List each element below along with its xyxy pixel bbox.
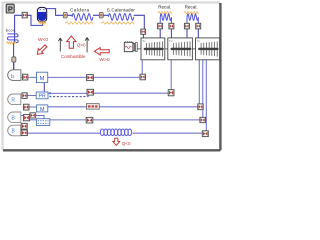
reheater1 heat marks (above) [158,12,172,14]
drum heat marks [38,21,46,23]
feedwater valve into drum [22,12,27,18]
svg-text:P: P [8,5,13,14]
hollow arrow down-left [37,45,46,54]
condenser coil [100,129,131,136]
heater1 valve to PR [22,93,27,99]
fitting before superheater coil [99,12,103,18]
hollow arrow left W>0 [94,48,109,55]
svg-text:Caldera: Caldera [70,8,90,13]
svg-text:M: M [40,107,45,113]
turbine T2 (MP) [168,38,193,60]
pressure reference P icon [6,4,14,13]
flow meter box M1 [37,72,48,82]
wire M to PR connector [43,83,45,92]
heater1 lower valve [23,104,29,110]
control valve row3 [86,117,93,123]
svg-text:W<0: W<0 [38,37,48,43]
svg-text:S.Calentador: S.Calentador [107,7,136,12]
reheater 1 coil [160,14,171,24]
turbine T3 (LP) [196,38,220,60]
wire drum steam line to turbine inlet [46,9,144,39]
shaft line [137,48,199,50]
control valve mid row pump [87,75,94,81]
econ heat marks [6,42,16,44]
wire row3 to turbine3 valve b [30,119,200,121]
heater drum 2 [8,112,21,123]
turbine1 admission valve [141,29,146,34]
svg-text:Tv: Tv [142,39,146,43]
heater drum 1 [8,94,21,105]
wire feedwater spine left [15,15,43,43]
wire reheater 1 legs [160,29,171,39]
flow meter box M2 [37,105,48,113]
reheater2 heat marks (above) [184,12,199,14]
wire reheater 2 legs [187,29,198,39]
svg-text:Q>0: Q>0 [77,42,86,47]
wire pump discharge row [21,76,140,78]
heater2 valve [23,115,29,121]
wire econ outlet down to pump [13,43,15,71]
superheater heat marks [101,22,134,24]
pump outlet valve [23,74,28,80]
reheater2 admission valves [184,23,189,29]
generator [124,41,137,51]
wire turbine1 exhaust riser [141,60,143,74]
thin up arrow 1 [58,38,62,52]
reheater1 admission valves [158,23,163,29]
turbine3 extraction valve a [198,104,203,110]
svg-text:PR: PR [38,94,45,100]
signal dashed PR to control valve [50,92,88,97]
steam drum [37,7,46,21]
wire row2 to turbine3 valve a [29,106,198,108]
turbine1 exhaust valve [140,74,145,80]
fitting before caldera coil [63,12,67,18]
regulator box PR [36,92,48,100]
svg-text:W>0: W>0 [99,57,109,63]
wire turbine2 exhaust riser [170,60,172,90]
control valve row2 mid (TDC) [86,104,99,109]
heat exchanger box row3 [36,119,49,126]
thin up arrow 2 [85,38,89,53]
wire pump inlet top [13,62,15,70]
heater3 upper valve [21,123,27,129]
reheater 2 coil [187,14,198,24]
wire row4 condenser line [28,132,202,134]
wire circle2 upper stub [20,116,44,119]
wire turbine3 extraction risers [199,60,206,131]
heater drum 3 [8,125,21,136]
control valve row1 [87,89,94,95]
turbine3 extraction valve c / condenser outlet [202,131,208,137]
svg-text:Recal.: Recal. [185,5,198,10]
economizer coil [7,34,18,43]
svg-text:Tv: Tv [197,39,201,43]
caldera heat marks [65,22,93,24]
fitting below econ [12,57,16,62]
svg-text:R: R [11,97,15,103]
outer frame (decorative border) [3,3,221,151]
svg-text:Econ.: Econ. [6,29,17,33]
hollow arrow up Q>0 [67,36,76,48]
turbine3 extraction valve b [200,117,206,122]
heater2 upper stub valve [30,113,36,118]
boiler coil (caldera) [72,14,93,21]
svg-text:Tv: Tv [169,39,173,43]
turbine T1 (HP) [141,38,165,60]
condenser heat arrow down [113,138,120,145]
svg-text:M: M [40,76,45,82]
feed pump [8,70,21,81]
svg-text:Recal.: Recal. [158,5,171,10]
heater3 lower valve [21,130,27,136]
wire row1 heater1 to turbine2 valve [27,93,168,95]
turbine2 exhaust valve [168,90,174,96]
superheater coil [108,14,134,21]
svg-text:Q<0: Q<0 [122,141,131,146]
svg-text:b: b [11,74,14,80]
svg-text:Combustible: Combustible [61,54,86,59]
